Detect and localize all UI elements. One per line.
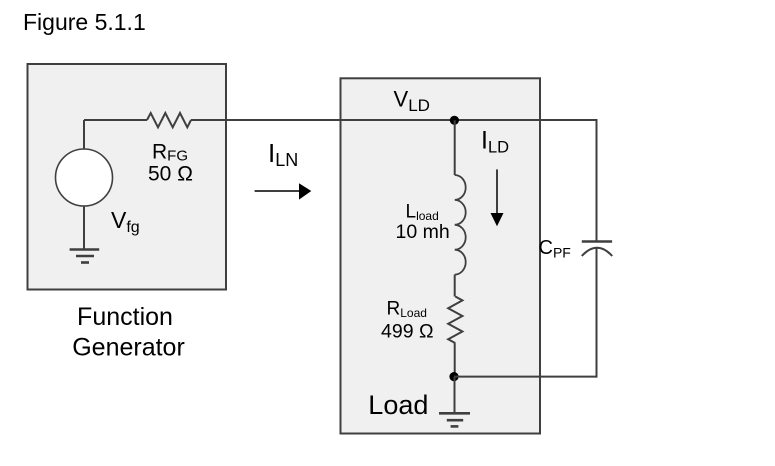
wire bottom horizontal [454, 376, 597, 378]
wire top horizontal with resistor gap [84, 119, 147, 121]
svg-text:Function: Function [77, 303, 173, 331]
capacitor CPF [582, 242, 612, 257]
wire down to source circle [83, 120, 85, 149]
svg-text:Generator: Generator [72, 334, 185, 362]
inductor Lload coil [455, 175, 466, 275]
function generator box [28, 64, 227, 290]
svg-text:50 Ω: 50 Ω [148, 163, 193, 186]
svg-text:Load: Load [368, 390, 428, 420]
wire right vertical bottom segment [596, 248, 598, 378]
ground function generator [70, 250, 100, 263]
svg-text:Figure 5.1.1: Figure 5.1.1 [23, 9, 146, 35]
resistor RFG zigzag [147, 113, 191, 127]
wire node to inductor [454, 120, 456, 175]
wire resistor to bottom node [454, 343, 456, 377]
node VLD junction dot [450, 116, 459, 125]
svg-text:10 mh: 10 mh [396, 221, 450, 243]
wire circle to ground [83, 206, 85, 250]
wire node to load ground [454, 377, 456, 414]
wire resistor to right corner [191, 119, 597, 121]
arrow ILD [491, 169, 504, 226]
wire inductor to resistor [454, 275, 456, 297]
arrow ILN [255, 183, 312, 199]
ground load [439, 413, 470, 426]
svg-text:499 Ω: 499 Ω [381, 321, 434, 343]
load box [341, 78, 541, 433]
voltage source circle Vfg [56, 149, 113, 206]
wire right vertical top segment [596, 119, 598, 242]
resistor Rload zigzag vertical [448, 297, 462, 344]
bottom junction dot [449, 372, 458, 381]
